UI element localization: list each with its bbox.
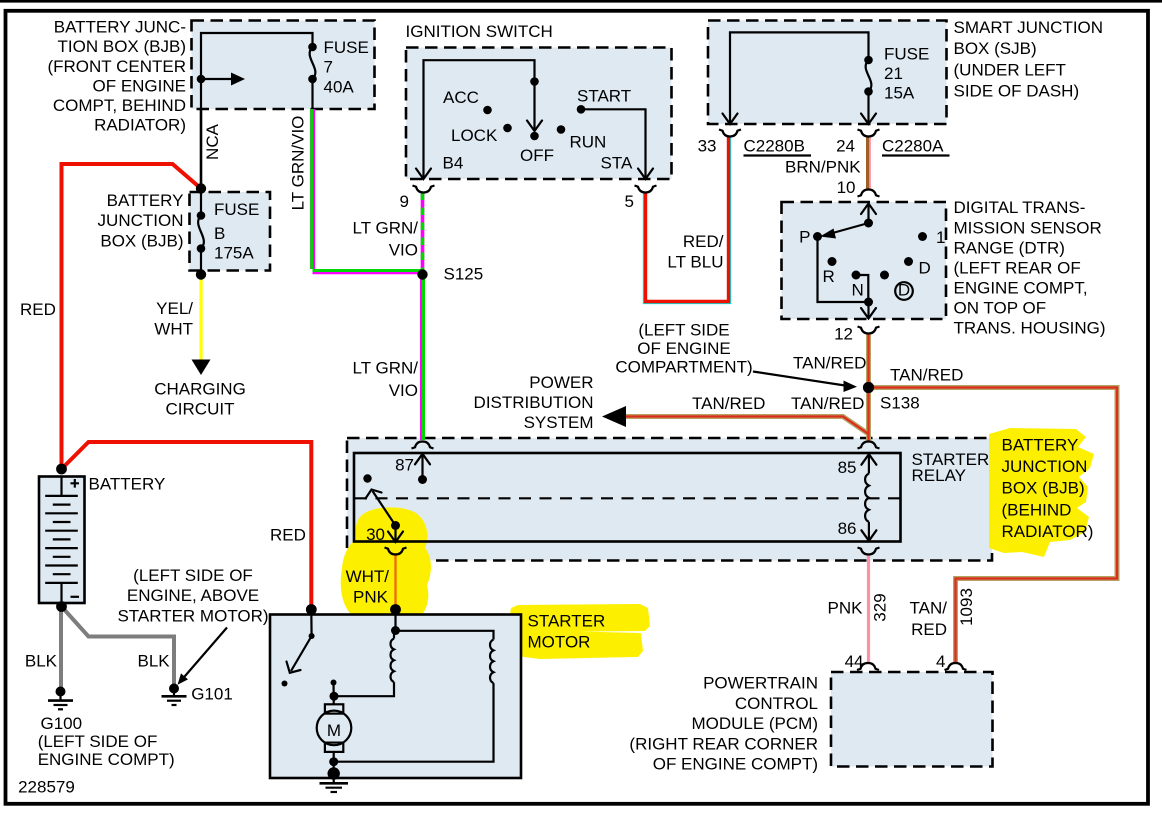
svg-text:BATTERY JUNC-: BATTERY JUNC- xyxy=(54,18,186,37)
svg-text:RED: RED xyxy=(20,300,56,319)
svg-text:175A: 175A xyxy=(214,244,254,263)
svg-text:D: D xyxy=(898,281,910,300)
svg-text:BRN/PNK: BRN/PNK xyxy=(785,157,861,176)
svg-text:STARTER MOTOR): STARTER MOTOR) xyxy=(117,606,268,625)
svg-text:TAN/RED: TAN/RED xyxy=(793,354,866,373)
svg-text:STARTER: STARTER xyxy=(528,612,606,631)
svg-text:P: P xyxy=(799,227,810,246)
svg-text:(RIGHT REAR CORNER: (RIGHT REAR CORNER xyxy=(629,734,818,753)
svg-text:S138: S138 xyxy=(880,393,920,412)
svg-text:VIO: VIO xyxy=(389,381,418,400)
svg-text:JUNCTION: JUNCTION xyxy=(1002,457,1088,476)
svg-text:CIRCUIT: CIRCUIT xyxy=(166,400,235,419)
svg-text:CHARGING: CHARGING xyxy=(154,379,246,398)
svg-text:DISTRIBUTION: DISTRIBUTION xyxy=(474,393,594,412)
svg-text:M: M xyxy=(327,721,341,740)
svg-text:BATTERY: BATTERY xyxy=(1002,436,1079,455)
svg-text:TAN/RED: TAN/RED xyxy=(791,394,864,413)
svg-text:FUSE: FUSE xyxy=(214,200,259,219)
svg-text:WHT/: WHT/ xyxy=(346,567,390,586)
svg-text:LT GRN/: LT GRN/ xyxy=(353,218,419,237)
svg-text:PNK: PNK xyxy=(353,588,389,607)
svg-text:44: 44 xyxy=(845,652,864,671)
svg-text:IGNITION SWITCH: IGNITION SWITCH xyxy=(406,22,553,41)
svg-text:RED/: RED/ xyxy=(683,232,724,251)
svg-text:TAN/RED: TAN/RED xyxy=(890,366,963,385)
svg-text:SIDE OF DASH): SIDE OF DASH) xyxy=(954,82,1080,101)
svg-text:BATTERY: BATTERY xyxy=(89,474,166,493)
svg-text:RANGE (DTR): RANGE (DTR) xyxy=(954,238,1065,257)
svg-text:(LEFT SIDE OF: (LEFT SIDE OF xyxy=(38,732,158,751)
svg-text:85: 85 xyxy=(838,458,857,477)
svg-text:BLK: BLK xyxy=(25,651,58,670)
svg-text:12: 12 xyxy=(834,325,853,344)
svg-text:7: 7 xyxy=(324,58,333,77)
svg-text:STA: STA xyxy=(601,154,633,173)
svg-text:B4: B4 xyxy=(443,154,464,173)
svg-text:TRANS. HOUSING): TRANS. HOUSING) xyxy=(954,319,1106,338)
svg-text:B: B xyxy=(214,224,225,243)
svg-text:33: 33 xyxy=(698,137,717,156)
svg-text:30: 30 xyxy=(366,525,385,544)
svg-text:MODULE (PCM): MODULE (PCM) xyxy=(691,714,818,733)
svg-text:86: 86 xyxy=(838,519,857,538)
svg-text:MISSION SENSOR: MISSION SENSOR xyxy=(954,218,1102,237)
svg-text:RELAY: RELAY xyxy=(912,466,967,485)
svg-text:BOX (BJB): BOX (BJB) xyxy=(100,232,183,251)
svg-text:N: N xyxy=(852,281,864,300)
svg-text:VIO: VIO xyxy=(389,241,418,260)
svg-text:OFF: OFF xyxy=(520,146,554,165)
svg-text:C2280A: C2280A xyxy=(882,137,944,156)
svg-text:RED: RED xyxy=(911,620,947,639)
svg-text:(FRONT CENTER: (FRONT CENTER xyxy=(47,57,186,76)
svg-text:SYSTEM: SYSTEM xyxy=(524,413,594,432)
svg-text:RADIATOR): RADIATOR) xyxy=(94,116,186,135)
svg-text:5: 5 xyxy=(625,192,634,211)
svg-text:ON TOP OF: ON TOP OF xyxy=(954,298,1047,317)
svg-text:FUSE: FUSE xyxy=(884,45,929,64)
svg-text:SMART JUNCTION: SMART JUNCTION xyxy=(954,18,1104,37)
svg-text:CONTROL: CONTROL xyxy=(735,694,818,713)
svg-text:40A: 40A xyxy=(324,78,355,97)
svg-text:(LEFT REAR OF: (LEFT REAR OF xyxy=(954,258,1081,277)
svg-text:228579: 228579 xyxy=(18,778,75,797)
svg-text:RADIATOR): RADIATOR) xyxy=(1002,522,1094,541)
svg-text:C2280B: C2280B xyxy=(744,137,805,156)
svg-text:4: 4 xyxy=(936,652,945,671)
svg-text:TAN/: TAN/ xyxy=(910,599,948,618)
svg-text:ENGINE COMPT): ENGINE COMPT) xyxy=(38,750,175,769)
svg-text:POWERTRAIN: POWERTRAIN xyxy=(703,674,818,693)
svg-text:DIGITAL TRANS-: DIGITAL TRANS- xyxy=(954,198,1086,217)
svg-text:BOX (SJB): BOX (SJB) xyxy=(954,39,1037,58)
svg-text:ENGINE, ABOVE: ENGINE, ABOVE xyxy=(127,586,259,605)
svg-text:(UNDER LEFT: (UNDER LEFT xyxy=(954,60,1066,79)
svg-text:329: 329 xyxy=(871,593,890,621)
svg-text:TION BOX (BJB): TION BOX (BJB) xyxy=(58,37,186,56)
svg-text:BOX (BJB): BOX (BJB) xyxy=(1002,479,1085,498)
svg-text:MOTOR: MOTOR xyxy=(528,632,591,651)
svg-text:COMPT, BEHIND: COMPT, BEHIND xyxy=(53,96,186,115)
svg-text:START: START xyxy=(577,87,631,106)
svg-text:R: R xyxy=(823,267,835,286)
svg-text:OF ENGINE: OF ENGINE xyxy=(92,76,186,95)
svg-text:BLK: BLK xyxy=(138,651,171,670)
svg-text:(BEHIND: (BEHIND xyxy=(1002,500,1072,519)
svg-text:WHT: WHT xyxy=(154,320,193,339)
svg-text:24: 24 xyxy=(836,137,855,156)
svg-text:S125: S125 xyxy=(444,265,484,284)
svg-text:9: 9 xyxy=(400,192,409,211)
svg-text:RUN: RUN xyxy=(570,132,607,151)
svg-text:LOCK: LOCK xyxy=(451,126,498,145)
svg-text:TAN/RED: TAN/RED xyxy=(692,394,765,413)
svg-text:NCA: NCA xyxy=(203,123,222,160)
svg-text:G100: G100 xyxy=(41,714,83,733)
svg-text:ENGINE COMPT,: ENGINE COMPT, xyxy=(954,278,1088,297)
svg-text:COMPARTMENT): COMPARTMENT) xyxy=(615,357,752,376)
svg-text:87: 87 xyxy=(395,456,414,475)
svg-text:RED: RED xyxy=(270,526,306,545)
svg-text:15A: 15A xyxy=(884,84,915,103)
svg-text:POWER: POWER xyxy=(529,373,593,392)
svg-text:1: 1 xyxy=(936,228,945,247)
svg-text:1093: 1093 xyxy=(957,588,976,626)
svg-text:10: 10 xyxy=(837,178,856,197)
svg-text:G101: G101 xyxy=(191,685,233,704)
svg-text:OF ENGINE COMPT): OF ENGINE COMPT) xyxy=(653,755,818,774)
svg-text:LT BLU: LT BLU xyxy=(667,253,723,272)
svg-text:YEL/: YEL/ xyxy=(156,299,193,318)
svg-text:FUSE: FUSE xyxy=(324,38,369,57)
svg-text:BATTERY: BATTERY xyxy=(107,191,184,210)
svg-text:(LEFT SIDE OF: (LEFT SIDE OF xyxy=(133,566,253,585)
svg-text:21: 21 xyxy=(884,64,903,83)
svg-text:OF ENGINE: OF ENGINE xyxy=(637,339,731,358)
svg-text:PNK: PNK xyxy=(828,599,864,618)
svg-text:ACC: ACC xyxy=(443,88,479,107)
svg-text:LT GRN/VIO: LT GRN/VIO xyxy=(289,116,308,211)
svg-text:JUNCTION: JUNCTION xyxy=(98,211,184,230)
svg-text:LT GRN/: LT GRN/ xyxy=(353,359,419,378)
svg-text:D: D xyxy=(919,259,931,278)
svg-text:(LEFT SIDE: (LEFT SIDE xyxy=(638,320,729,339)
